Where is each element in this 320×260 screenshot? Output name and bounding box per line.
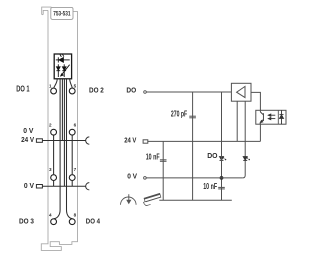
svg-text:DO 2: DO 2 — [89, 85, 104, 94]
svg-text:0 V: 0 V — [127, 172, 137, 181]
wire: DO to earth (through 270pF) — [192, 92, 194, 200]
svg-text:24 V: 24 V — [21, 135, 34, 144]
terminal 8 — [69, 219, 75, 225]
light arrows inside optocoupler — [268, 114, 275, 120]
wire: internal 24V feed — [61, 79, 63, 141]
wire: DO3 line to terminal 4 — [54, 79, 60, 219]
wire: terminal 2 to 24V bus and terminal 3 — [53, 136, 55, 187]
svg-text:DO 3: DO 3 — [19, 217, 34, 226]
terminal 5 — [69, 88, 75, 94]
wire: optocoupler emitter to 24V rail — [259, 122, 261, 141]
DIN rail symbol — [144, 193, 161, 205]
function block (LED box) — [54, 54, 71, 79]
wire: DO line to 0V (LED branch left) — [221, 92, 223, 200]
optocoupler U2 — [256, 110, 286, 124]
wire: into optocoupler — [259, 110, 261, 112]
wire: stub to terminal 5 — [70, 79, 73, 88]
terminal 6 — [69, 129, 75, 135]
status LED (right) — [243, 157, 250, 161]
svg-text:7: 7 — [74, 167, 77, 172]
driver U1 — [231, 83, 251, 101]
LED inside optocoupler — [280, 110, 284, 124]
svg-text:4: 4 — [49, 213, 52, 218]
junction node at 0V rail — [220, 176, 224, 180]
24V power bus with jumper contact — [36, 139, 42, 143]
indicator diode (top, inside LED box) — [56, 54, 70, 62]
wire: terminal 6 to 24V bus and terminal 7 — [71, 136, 73, 187]
svg-text:270 pF: 270 pF — [171, 110, 187, 119]
earth rail — [159, 199, 232, 201]
label box 753-531 — [51, 7, 73, 19]
wire: DO line — [146, 91, 231, 93]
svg-text:10 nF: 10 nF — [146, 152, 160, 161]
ground symbol (functional earth) — [121, 194, 137, 205]
wire: driver pin to 24V rail — [236, 101, 238, 141]
svg-text:753-531: 753-531 — [53, 11, 71, 18]
svg-text:6: 6 — [74, 123, 77, 128]
wire: 24V rail — [148, 140, 261, 142]
wire: internal 0V feed — [63, 79, 65, 186]
phototransistor inside optocoupler — [260, 112, 263, 123]
terminal 1 — [51, 88, 57, 94]
svg-text:DO: DO — [207, 153, 218, 160]
wire: 24V rail to earth (through 10nF) — [162, 141, 164, 200]
svg-text:DO: DO — [126, 86, 136, 95]
svg-text:DO 1: DO 1 — [16, 85, 30, 94]
svg-text:DO 4: DO 4 — [86, 216, 101, 225]
svg-text:5: 5 — [74, 84, 77, 89]
0V power bus with jumper contact — [36, 185, 42, 189]
status LEDs (bottom, inside LED box) — [56, 64, 69, 77]
svg-text:8: 8 — [74, 213, 77, 218]
wire: DO4 line to terminal 8 — [67, 79, 73, 219]
svg-text:10 nF: 10 nF — [203, 182, 217, 191]
terminal 3 — [51, 175, 57, 181]
wire: driver output to optocoupler — [251, 92, 260, 110]
terminal 2 — [51, 129, 57, 135]
svg-text:24 V: 24 V — [124, 136, 136, 145]
svg-text:2: 2 — [49, 123, 52, 128]
terminal 7 — [69, 175, 75, 181]
svg-text:1: 1 — [49, 84, 52, 89]
svg-text:3: 3 — [49, 167, 52, 172]
module body outline 753-531 — [42, 7, 52, 15]
wire: driver pin / LED branch — [243, 101, 246, 178]
svg-text:0 V: 0 V — [24, 183, 35, 190]
wire: 0V rail — [146, 177, 242, 179]
terminal 4 — [51, 219, 57, 225]
wire: stub to terminal 1 — [54, 79, 57, 88]
